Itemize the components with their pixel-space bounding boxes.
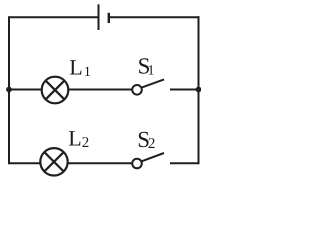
- svg-text:1: 1: [148, 63, 155, 78]
- wire bottom segment L2 to S2: [68, 162, 133, 164]
- wire left vertical: [8, 16, 10, 164]
- svg-text:1: 1: [84, 65, 91, 80]
- wire bottom-right segment: [170, 162, 199, 164]
- svg-text:L: L: [69, 54, 82, 79]
- switch S1: [132, 85, 142, 95]
- wire middle-left segment: [9, 89, 42, 91]
- battery B1 long plate: [98, 4, 100, 30]
- wire top-right segment: [109, 16, 200, 18]
- wire right vertical: [198, 16, 200, 164]
- wire bottom-left segment: [9, 162, 40, 164]
- wire top-left segment: [9, 16, 98, 18]
- node left junction: [6, 87, 12, 93]
- battery B1 short plate: [108, 13, 110, 23]
- switch S2: [132, 159, 142, 169]
- wire middle-right segment: [170, 89, 199, 91]
- node right junction: [196, 87, 202, 93]
- svg-text:2: 2: [148, 136, 156, 152]
- svg-text:L: L: [68, 126, 81, 151]
- wire middle segment L1 to S1: [68, 89, 132, 91]
- lamp L2: [40, 148, 67, 175]
- svg-text:2: 2: [82, 135, 90, 151]
- lamp L1: [42, 77, 69, 104]
